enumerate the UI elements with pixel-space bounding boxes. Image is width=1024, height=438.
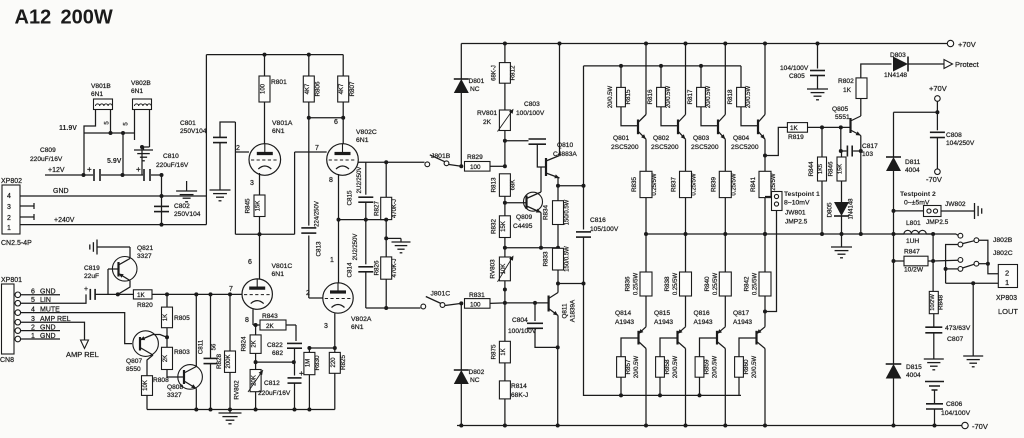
- capacitor C816: [576, 231, 591, 233]
- potentiometer RV801: [499, 110, 510, 131]
- svg-text:C810: C810: [163, 153, 179, 160]
- ground on GND line: [186, 181, 188, 191]
- resistor R805: [166, 294, 168, 307]
- ground C801: [210, 189, 231, 191]
- svg-text:0.25/5W: 0.25/5W: [673, 272, 679, 295]
- svg-text:C801: C801: [180, 120, 196, 127]
- svg-text:20/0.5W: 20/0.5W: [706, 85, 712, 108]
- capacitor C803: [505, 140, 529, 142]
- wire 5.9V node: [134, 133, 136, 140]
- svg-text:R802: R802: [838, 78, 854, 85]
- transistor Q802 2SC5200: [677, 120, 679, 135]
- resistor R842: [764, 234, 766, 272]
- transistor Q814 A1943: [637, 331, 639, 345]
- diode D801: [460, 44, 462, 80]
- transistor Q808: [178, 365, 203, 390]
- wire +240V from XP802 pin1: [20, 224, 206, 226]
- wire 11.9V feed: [83, 133, 85, 175]
- svg-text:8: 8: [245, 317, 249, 324]
- terminal -70V bottom: [962, 422, 968, 428]
- wire switch commons to XP803: [979, 240, 999, 274]
- svg-text:CN8: CN8: [0, 357, 14, 364]
- svg-text:R805: R805: [174, 315, 190, 322]
- svg-text:104/100V: 104/100V: [941, 410, 971, 417]
- svg-text:R816: R816: [647, 89, 654, 105]
- wire XP802 pin2 stub: [20, 216, 34, 218]
- svg-text:C815: C815: [347, 190, 354, 206]
- svg-text:R838: R838: [664, 276, 671, 292]
- svg-text:R830: R830: [314, 355, 321, 371]
- svg-text:R847: R847: [904, 249, 920, 256]
- svg-text:2: 2: [1005, 269, 1009, 278]
- svg-text:6: 6: [334, 119, 338, 126]
- svg-text:104/250V: 104/250V: [946, 140, 975, 147]
- svg-text:220uF/16V: 220uF/16V: [30, 156, 63, 163]
- svg-text:150/0.5W: 150/0.5W: [565, 246, 571, 272]
- wire to J801C: [366, 307, 421, 309]
- svg-text:Q816: Q816: [694, 310, 710, 317]
- wire V802C grid: [295, 151, 327, 153]
- ground symbol preamp bus: [229, 410, 231, 414]
- svg-text:Q804: Q804: [733, 135, 749, 142]
- resistor R808: [142, 376, 153, 396]
- transistor Q816 A1943: [716, 331, 718, 345]
- wire C801 top to grid line: [220, 122, 235, 137]
- svg-text:0.25/5W: 0.25/5W: [692, 173, 698, 196]
- capacitor C808: [936, 101, 938, 130]
- wire bias spreader node: [505, 247, 558, 249]
- svg-text:220uF/16V: 220uF/16V: [156, 162, 189, 169]
- wire Q808 collector column: [195, 294, 197, 366]
- svg-text:1N4148: 1N4148: [884, 72, 907, 79]
- svg-text:R831: R831: [469, 292, 485, 299]
- resistor R875: [504, 303, 506, 341]
- wire V802A grid: [309, 297, 323, 299]
- svg-text:100: 100: [470, 164, 481, 171]
- svg-text:6N1: 6N1: [356, 137, 369, 144]
- svg-text:R858: R858: [664, 359, 671, 375]
- svg-text:1K: 1K: [163, 314, 169, 321]
- svg-text:20K: 20K: [252, 375, 258, 386]
- wire GND from XP802 pin4: [20, 195, 206, 197]
- capacitor C812 polarized: [288, 377, 302, 379]
- wire R841 to output rail: [764, 198, 766, 234]
- resistor R803: [162, 347, 173, 369]
- wire Q804 emitter to R819: [763, 154, 767, 158]
- transistor Q817 A1943: [755, 331, 757, 345]
- svg-text:100: 100: [470, 302, 481, 309]
- svg-text:2K: 2K: [483, 119, 492, 126]
- svg-text:-70V: -70V: [972, 422, 988, 431]
- svg-text:0.25/5W: 0.25/5W: [731, 173, 737, 196]
- svg-text:AMP REL: AMP REL: [66, 350, 99, 359]
- wire +70V top bus: [461, 43, 950, 45]
- svg-text:R824: R824: [241, 336, 248, 352]
- capacitor C805: [817, 44, 819, 69]
- svg-text:2K: 2K: [252, 340, 258, 347]
- switch J802C: [933, 259, 958, 262]
- wire Q810 collector to bus: [559, 44, 561, 156]
- svg-text:R801: R801: [271, 79, 287, 86]
- svg-text:105/100V: 105/100V: [590, 226, 619, 233]
- wire Q802 collector to +70V bus: [685, 44, 687, 115]
- wire Q816 emitter: [724, 296, 726, 327]
- svg-text:15K: 15K: [838, 164, 844, 174]
- resistor R845: [254, 195, 265, 217]
- capacitor C813: [301, 227, 316, 229]
- svg-text:V802A: V802A: [351, 316, 372, 323]
- svg-text:RV802: RV802: [234, 380, 241, 400]
- svg-text:C4883A: C4883A: [553, 151, 577, 158]
- wire +12V rail: [45, 174, 93, 176]
- wire R806 R807 link: [309, 117, 343, 119]
- wire Q805 emitter column: [860, 136, 862, 235]
- svg-text:100: 100: [261, 83, 267, 94]
- svg-text:LOUT: LOUT: [998, 307, 1018, 316]
- svg-text:1N4148: 1N4148: [849, 198, 855, 220]
- svg-text:2: 2: [306, 290, 310, 297]
- svg-text:R819: R819: [788, 134, 804, 141]
- capacitor C806: [934, 390, 936, 403]
- svg-text:100/100V: 100/100V: [508, 328, 537, 335]
- triode V802C: [327, 144, 359, 176]
- ground C805: [807, 88, 828, 90]
- svg-text:8~10mV: 8~10mV: [784, 200, 810, 207]
- resistor R830: [308, 348, 310, 352]
- svg-text:R859: R859: [703, 359, 710, 375]
- svg-text:C812: C812: [264, 380, 280, 387]
- svg-text:R844: R844: [808, 161, 815, 177]
- svg-text:RV803: RV803: [490, 259, 497, 279]
- transistor Q803 2SC5200: [717, 120, 719, 135]
- svg-text:C803: C803: [524, 101, 540, 108]
- resistor R859: [700, 338, 718, 357]
- svg-text:C805: C805: [789, 73, 805, 80]
- wire LIN: [21, 294, 86, 303]
- resistor R825: [334, 348, 336, 352]
- svg-text:100/100V: 100/100V: [516, 110, 545, 117]
- resistor R839: [724, 139, 726, 171]
- wire V802A cathode to R830 R825: [309, 347, 334, 349]
- triode V801C: [242, 279, 272, 309]
- svg-text:-70V: -70V: [926, 175, 942, 184]
- transistor Q815 A1943: [676, 331, 678, 345]
- svg-text:7: 7: [315, 145, 319, 152]
- svg-text:Testpoint 2: Testpoint 2: [900, 191, 936, 198]
- svg-text:R815: R815: [625, 89, 632, 105]
- diode D811: [886, 157, 901, 171]
- wire heater V801B right leg: [110, 110, 112, 134]
- capacitor C806 upper plates: [925, 381, 944, 383]
- ground heater: [134, 149, 153, 151]
- capacitor C822: [295, 325, 297, 341]
- resistor R846: [840, 127, 842, 151]
- terminal +70V top: [947, 40, 953, 46]
- svg-text:200W: 200W: [61, 7, 113, 29]
- svg-text:R825: R825: [340, 354, 347, 370]
- svg-text:XP803: XP803: [996, 295, 1017, 302]
- transistor Q805 5551: [849, 118, 851, 133]
- wire Q817 emitter: [764, 296, 766, 327]
- wire C801 bottom to ground: [219, 143, 221, 190]
- capacitor C804: [534, 303, 536, 321]
- svg-text:3: 3: [324, 323, 328, 330]
- svg-text:R842: R842: [744, 276, 751, 292]
- svg-text:15K: 15K: [501, 221, 507, 232]
- svg-text:JW801: JW801: [785, 210, 806, 217]
- svg-text:R846: R846: [828, 161, 835, 177]
- tube heater V801B: [94, 99, 113, 110]
- svg-text:56: 56: [212, 343, 218, 350]
- svg-text:V802C: V802C: [356, 129, 377, 136]
- resistor R818: [740, 66, 742, 88]
- svg-text:2U2/250V: 2U2/250V: [353, 234, 359, 261]
- connector XP801 pin 5 LIN: [15, 300, 21, 306]
- svg-text:R807: R807: [349, 81, 356, 97]
- svg-text:2: 2: [236, 145, 240, 152]
- svg-text:R828: R828: [216, 353, 223, 369]
- svg-text:0.25/5W: 0.25/5W: [652, 173, 658, 196]
- wire ground to Q821 collector: [97, 246, 130, 248]
- svg-text:3327: 3327: [167, 392, 182, 399]
- svg-text:Q807: Q807: [126, 358, 142, 365]
- wire heater V801B left leg: [84, 110, 96, 134]
- svg-text:R845: R845: [245, 198, 252, 214]
- wire XP802 pin3 stub: [20, 205, 34, 207]
- svg-text:20/0.5W: 20/0.5W: [634, 355, 640, 378]
- resistor R806: [308, 55, 310, 76]
- svg-text:R829: R829: [467, 154, 483, 161]
- svg-text:1M: 1M: [305, 359, 311, 367]
- svg-text:R814: R814: [511, 383, 527, 390]
- capacitor C814: [365, 220, 367, 265]
- svg-text:+70V: +70V: [929, 84, 947, 93]
- resistor R833: [553, 248, 564, 270]
- wire heater V802B right leg: [149, 110, 151, 148]
- wire XP803 ground column: [972, 283, 974, 356]
- svg-text:JMP2.5: JMP2.5: [926, 219, 949, 226]
- svg-text:C811: C811: [198, 339, 205, 354]
- svg-text:C814: C814: [347, 262, 354, 278]
- protect arrow terminal: [944, 60, 953, 69]
- transistor Q801 2SC5200: [637, 120, 639, 135]
- wire XP801 pin2 gnd stub: [21, 330, 60, 332]
- diode D802: [460, 303, 462, 370]
- svg-text:R813: R813: [491, 177, 498, 193]
- svg-text:C804: C804: [512, 317, 528, 324]
- wire -70V bus: [457, 425, 962, 427]
- svg-text:4K7: 4K7: [305, 83, 311, 94]
- svg-text:CN2.5-4P: CN2.5-4P: [1, 240, 32, 247]
- wire Q803 collector to +70V bus: [724, 44, 726, 115]
- connector XP803: [998, 265, 1017, 288]
- svg-text:1K: 1K: [790, 125, 799, 132]
- ground bus preamp: [147, 409, 335, 411]
- svg-text:0.25/5W: 0.25/5W: [713, 272, 719, 295]
- svg-text:V801A: V801A: [272, 120, 293, 127]
- wire driver rail to output bases: [584, 65, 742, 67]
- svg-text:6N1: 6N1: [131, 88, 143, 95]
- testpoint 1 connector JW801: [772, 192, 783, 211]
- wire heater V802B left leg: [134, 110, 136, 134]
- svg-text:GND: GND: [53, 188, 69, 195]
- svg-text:473/63V: 473/63V: [945, 325, 971, 332]
- svg-text:Q815: Q815: [654, 310, 670, 317]
- wire Q804 collector to +70V bus: [764, 44, 766, 115]
- resistor R814: [499, 381, 510, 399]
- svg-text:R834: R834: [543, 204, 550, 220]
- wire testpoint1 to below R842: [765, 211, 777, 312]
- svg-text:D805: D805: [827, 202, 834, 218]
- svg-text:R860: R860: [743, 359, 750, 375]
- svg-text:V801B: V801B: [91, 83, 111, 90]
- svg-text:R833: R833: [543, 251, 550, 267]
- svg-text:470K-J: 470K-J: [392, 199, 398, 218]
- tube heater V802B: [133, 99, 152, 110]
- wire Q814 collector to -70V bus: [645, 349, 647, 426]
- svg-text:C809: C809: [40, 147, 56, 154]
- svg-text:Q817: Q817: [733, 310, 749, 317]
- svg-text:15K: 15K: [256, 201, 262, 212]
- wire R833 to C816 column: [558, 283, 584, 285]
- wire Q810 emitter column: [557, 178, 559, 201]
- svg-text:250V104: 250V104: [180, 128, 207, 135]
- svg-text:68K: 68K: [511, 180, 517, 191]
- svg-text:2K: 2K: [163, 355, 169, 362]
- capacitor C809: [93, 169, 95, 181]
- wire Q810 emitter jog: [558, 185, 584, 187]
- resistor R817: [700, 66, 702, 88]
- diode D803: [893, 57, 908, 72]
- ground XP803: [963, 355, 983, 357]
- svg-text:2SC5200: 2SC5200: [611, 144, 639, 151]
- svg-text:J801C: J801C: [431, 291, 451, 298]
- wire Q808 emitter to ground bus: [195, 389, 197, 410]
- wire Q809 emitter: [540, 213, 542, 248]
- wire V802A cathode: [334, 314, 336, 349]
- svg-text:J802C: J802C: [993, 250, 1013, 257]
- diode D805: [834, 202, 849, 216]
- svg-text:C817: C817: [862, 143, 878, 150]
- wire Q814 emitter: [645, 296, 647, 327]
- svg-text:224/250V: 224/250V: [315, 201, 321, 227]
- ground below output rail: [841, 234, 843, 247]
- svg-text:1: 1: [330, 257, 334, 264]
- svg-text:1K: 1K: [843, 87, 852, 94]
- svg-text:+: +: [299, 369, 304, 378]
- svg-text:8: 8: [329, 177, 333, 184]
- transistor Q810: [545, 158, 547, 176]
- svg-text:R812: R812: [510, 65, 517, 81]
- capacitor C815: [365, 162, 367, 194]
- svg-text:22uF: 22uF: [84, 273, 99, 280]
- resistor R835: [645, 139, 647, 171]
- wire V802C cathode column: [338, 174, 340, 220]
- svg-text:150/0.5W: 150/0.5W: [565, 199, 571, 225]
- wire V801A grid column: [234, 122, 236, 234]
- svg-text:R817: R817: [687, 89, 694, 105]
- resistor R858: [660, 338, 678, 357]
- svg-text:R840: R840: [704, 276, 711, 292]
- wire R827 R826 column: [385, 220, 387, 257]
- svg-text:J802B: J802B: [993, 237, 1013, 244]
- potentiometer RV803: [499, 257, 510, 281]
- wire Q817 collector to -70V bus: [764, 349, 766, 426]
- transistor Q807: [133, 331, 159, 357]
- svg-text:R835: R835: [631, 176, 638, 192]
- svg-text:R832: R832: [491, 218, 498, 234]
- wire SRPP junction: [235, 233, 294, 235]
- resistor R816: [660, 66, 662, 88]
- capacitor C811: [210, 294, 212, 358]
- capacitor C813 column: [308, 118, 310, 226]
- wire R837 to output rail: [685, 198, 687, 234]
- svg-text:6: 6: [248, 259, 252, 266]
- svg-text:JW802: JW802: [945, 201, 966, 208]
- connector XP802: [2, 185, 20, 234]
- resistor R824: [255, 325, 257, 335]
- svg-text:RV801: RV801: [477, 110, 497, 117]
- resistor R820: [133, 290, 152, 299]
- resistor R832: [499, 216, 510, 238]
- svg-text:L801: L801: [906, 220, 921, 227]
- connector XP801 pin 1 GND: [15, 336, 21, 342]
- connector XP801: [2, 284, 15, 354]
- svg-text:A1839A: A1839A: [570, 299, 577, 322]
- svg-text:R826: R826: [374, 260, 381, 276]
- svg-text:R843: R843: [262, 313, 278, 320]
- switch J802B: [956, 234, 958, 235]
- svg-text:A1943: A1943: [694, 319, 713, 326]
- potentiometer RV802: [250, 370, 261, 392]
- svg-text:A12: A12: [15, 7, 52, 29]
- resistor R819: [787, 123, 807, 133]
- svg-text:250V104: 250V104: [174, 211, 201, 218]
- svg-text:10/2W: 10/2W: [904, 267, 924, 274]
- wire B+ top bus left: [206, 54, 343, 56]
- svg-text:1K: 1K: [501, 348, 507, 355]
- svg-text:NC: NC: [470, 377, 480, 384]
- svg-text:V802B: V802B: [131, 80, 151, 87]
- svg-text:R839: R839: [710, 176, 717, 192]
- ground Q821: [96, 240, 98, 255]
- svg-text:10K: 10K: [143, 380, 149, 391]
- svg-text:R803: R803: [174, 349, 190, 356]
- wire signal line to V801C grid: [152, 293, 242, 295]
- wire XP801 pin1 gnd stub: [21, 338, 60, 340]
- svg-text:1UH: 1UH: [906, 238, 919, 245]
- svg-text:R841: R841: [750, 176, 757, 192]
- svg-text:C819: C819: [84, 265, 100, 272]
- wire testpoint2 left: [894, 210, 924, 212]
- wire R839 to output rail: [724, 198, 726, 234]
- svg-text:V801C: V801C: [272, 263, 293, 270]
- svg-text:6N1: 6N1: [91, 91, 103, 98]
- svg-text:220: 220: [331, 357, 337, 368]
- wire R819 to Q805 base: [808, 126, 851, 128]
- wire L801 R847 right junction: [932, 234, 934, 291]
- wire Q809 collector: [540, 167, 542, 192]
- svg-text:20/0.5W: 20/0.5W: [746, 85, 752, 108]
- resistor R827: [385, 162, 387, 197]
- resistor R812: [504, 44, 506, 63]
- svg-text:682: 682: [272, 350, 283, 357]
- svg-text:Q801: Q801: [613, 135, 629, 142]
- terminal -70V mid: [935, 169, 941, 175]
- svg-text:D802: D802: [469, 369, 485, 376]
- svg-text:3: 3: [250, 180, 254, 187]
- connector XP801 pin 3 AMP REL: [15, 319, 21, 325]
